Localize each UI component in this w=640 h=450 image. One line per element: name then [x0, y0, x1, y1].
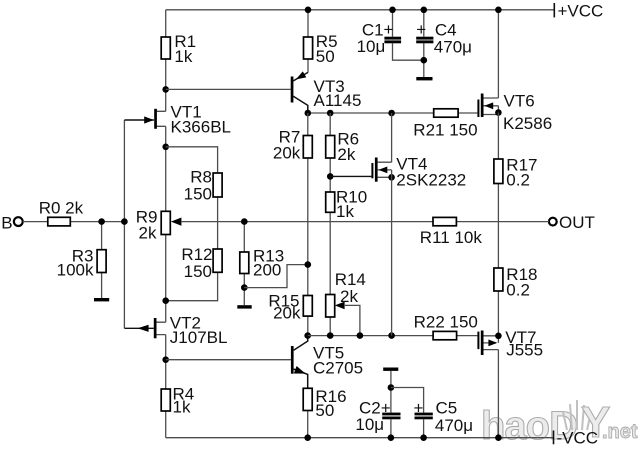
svg-text:20k: 20k — [273, 143, 301, 162]
junction: VT3 collector R7 top — [305, 110, 312, 117]
svg-text:C5: C5 — [436, 399, 458, 418]
wire: VT3 base line — [166, 88, 291, 90]
junction: C4 at +VCC — [421, 7, 428, 14]
junction: VT1 source node — [162, 144, 169, 151]
svg-text:+: + — [416, 20, 426, 39]
transistor VT5 C2705 NPN — [166, 336, 363, 390]
svg-text:J107BL: J107BL — [170, 328, 228, 347]
potentiometer R9 2k — [136, 207, 182, 242]
wire: VT1 source to VT2 drain through R9 — [165, 126, 167, 322]
ground for C1 C4 — [416, 77, 432, 80]
svg-text:470μ: 470μ — [435, 416, 473, 435]
svg-text:10μ: 10μ — [355, 415, 384, 434]
junction: VT7 drain at bottom rail — [495, 434, 502, 441]
resistor R1 1k — [161, 32, 196, 66]
svg-text:150: 150 — [184, 185, 212, 204]
junction: VT4 source dot — [388, 174, 395, 181]
junction: R14 wiper on lower row — [357, 332, 364, 339]
junction: R14 bottom on lower row — [327, 332, 334, 339]
junction: R6 R10 VT4 gate node — [327, 173, 334, 180]
junction: C1 C4 bottom node — [421, 57, 428, 64]
junction: VT6 column at +VCC — [495, 7, 502, 14]
svg-text:B: B — [1, 213, 12, 232]
wire: upper gate-drive row VT3 collector to VT6 gate — [308, 112, 478, 114]
svg-text:50: 50 — [316, 47, 335, 66]
junction: R6 top — [327, 110, 334, 117]
wire: R7 R15 column — [307, 113, 309, 336]
svg-text:K366BL: K366BL — [171, 118, 232, 137]
svg-text:0.2: 0.2 — [506, 171, 530, 190]
wire: -VCC bottom rail — [166, 437, 554, 439]
wire: R8 R12 branch loop — [166, 147, 218, 301]
resistor R22 150 — [414, 312, 478, 339]
transistor VT1 K366BL N-JFET — [124, 103, 231, 137]
capacitor C1 10u — [357, 10, 424, 60]
wire: VT6 drain to +VCC — [497, 10, 499, 98]
junction: R15 top node — [305, 261, 312, 268]
wire: R9 wiper to OUT line — [181, 221, 549, 223]
output terminal OUT — [549, 213, 595, 232]
wire: R5 column from +VCC to VT3 emitter — [307, 10, 309, 73]
resistor R4 1k — [161, 385, 194, 417]
svg-text:OUT: OUT — [559, 213, 595, 232]
junction: VT5 collector on lower row — [304, 332, 311, 339]
junction: VT4 source on lower row — [388, 332, 395, 339]
svg-text:1k: 1k — [174, 47, 192, 66]
potentiometer R14 2k — [326, 270, 366, 336]
svg-text:50: 50 — [315, 401, 334, 420]
+VCC terminal — [554, 2, 603, 21]
wire: VT6 source through R17 R18 to VT7 source — [497, 113, 499, 336]
junction: C2 C5 top node — [388, 384, 395, 391]
wire: VT4 drain to upper row — [391, 113, 393, 162]
junction: C5 at bottom rail — [420, 434, 427, 441]
svg-text:150: 150 — [184, 262, 212, 281]
junction: R13 top on OUT line — [241, 218, 248, 225]
svg-text:K2586: K2586 — [503, 114, 552, 133]
junction: gate column on B line — [121, 218, 128, 225]
svg-text:R22 150: R22 150 — [414, 312, 478, 331]
resistor R17 0.2 — [494, 155, 538, 189]
wire: ground stub to C2 C5 node — [390, 371, 392, 388]
resistor R7 20k — [273, 128, 312, 163]
resistor R6 2k — [326, 129, 359, 164]
svg-text:470μ: 470μ — [434, 37, 472, 56]
wire: left column from +VCC to VT1 drain — [165, 10, 167, 112]
resistor R10 1k — [326, 188, 367, 222]
wire: R6 R10 R14 column — [329, 113, 331, 336]
svg-text:+: + — [414, 398, 424, 417]
svg-text:C2705: C2705 — [313, 359, 363, 378]
wire: +VCC top rail — [166, 9, 554, 11]
resistor R15 20k — [268, 291, 312, 322]
resistor R5 50 — [304, 32, 338, 66]
junction: VT2 drain node R12 return — [162, 297, 169, 304]
svg-text:J555: J555 — [506, 341, 543, 360]
svg-text:R0 2k: R0 2k — [39, 199, 84, 218]
resistor R12 150 — [181, 245, 222, 281]
transistor VT3 A1145 PNP — [291, 71, 362, 113]
capacitor C4 470u — [416, 10, 472, 77]
junction: R5 at +VCC rail — [305, 7, 312, 14]
svg-text:20k: 20k — [273, 304, 301, 323]
svg-text:1k: 1k — [173, 398, 191, 417]
ground for R3 — [94, 298, 109, 301]
svg-text:2k: 2k — [337, 145, 355, 164]
transistor VT2 J107BL P-JFET — [124, 314, 227, 348]
svg-text:A1145: A1145 — [314, 91, 362, 110]
junction: C2 at bottom rail — [388, 434, 395, 441]
resistor R13 200 — [240, 222, 284, 306]
junction: VT4 drain node — [388, 110, 395, 117]
resistor R3 100k — [57, 222, 106, 298]
svg-text:.net: .net — [602, 421, 638, 443]
transistor VT7 J555 P-MOSFET — [477, 328, 543, 360]
wire: R13 bottom to R15 top node — [244, 265, 307, 288]
watermark haoDIY.net — [481, 398, 638, 448]
svg-text:R14: R14 — [335, 270, 366, 289]
resistor R21 150 — [413, 109, 477, 140]
svg-text:200: 200 — [253, 260, 281, 279]
-VCC terminal — [554, 429, 599, 448]
resistor R18 0.2 — [494, 265, 538, 299]
svg-text:R21 150: R21 150 — [413, 121, 477, 140]
svg-text:2k: 2k — [340, 287, 358, 306]
svg-text:VT6: VT6 — [504, 91, 535, 110]
wire: VT2 source to bottom rail — [165, 335, 167, 438]
wire: VT4 source to lower row — [391, 170, 393, 336]
svg-text:1k: 1k — [336, 202, 354, 221]
junction: B node at R3 — [98, 218, 105, 225]
svg-text:2SK2232: 2SK2232 — [396, 170, 466, 189]
wire: gate column VT1 to VT2 — [123, 120, 125, 328]
svg-text:10μ: 10μ — [357, 37, 386, 56]
svg-text:+: + — [384, 20, 394, 39]
svg-text:+VCC: +VCC — [558, 2, 604, 21]
svg-text:100k: 100k — [57, 261, 94, 280]
junction: C1 at +VCC — [389, 7, 396, 14]
resistor R8 150 — [184, 168, 222, 204]
wire: lower gate-drive row VT5 collector to VT7 gate — [308, 335, 478, 337]
svg-text:2k: 2k — [139, 223, 157, 242]
wire: VT7 drain to -VCC rail — [497, 350, 499, 438]
svg-text:R11 10k: R11 10k — [420, 228, 483, 247]
resistor R11 10k — [420, 217, 483, 247]
capacitor C2 10u — [355, 388, 400, 438]
ground for R13 — [237, 305, 251, 308]
ground for C2 C5 — [383, 368, 398, 371]
junction: VT2 source VT5 base node — [162, 356, 169, 363]
capacitor C5 470u — [391, 388, 473, 438]
resistor R16 50 — [303, 387, 346, 438]
transistor VT6 K2586 N-MOSFET — [477, 91, 552, 133]
input terminal B — [1, 213, 23, 232]
resistor R0 2k — [39, 199, 84, 226]
transistor VT4 2SK2232 N-MOSFET — [330, 154, 466, 189]
junction: VT6 source dot — [495, 109, 502, 116]
svg-text:0.2: 0.2 — [506, 280, 530, 299]
junction: R16 at bottom rail — [304, 434, 311, 441]
wire: B input line — [23, 221, 125, 223]
junction: R1 bottom VT3 base node — [162, 86, 169, 93]
junction: R13 bottom — [241, 284, 248, 291]
svg-text:-VCC: -VCC — [557, 429, 599, 448]
junction: VT7 source dot — [495, 333, 502, 340]
